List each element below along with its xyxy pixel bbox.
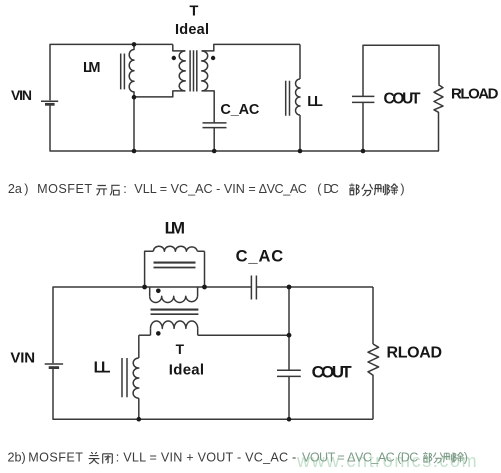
svg-text:): ) [464,451,468,465]
svg-text:COUT: COUT [312,362,353,381]
svg-text:Ideal: Ideal [169,361,204,378]
svg-text:(: ( [317,182,322,196]
svg-text::: : [116,451,120,465]
svg-text:2b): 2b) [8,451,26,465]
svg-text:LM: LM [83,60,101,76]
svg-text:VLL = VC_AC - VIN =: VLL = VC_AC - VIN = [134,182,255,196]
svg-text:ΔVC_AC: ΔVC_AC [259,182,307,196]
svg-text:2a: 2a [8,182,22,196]
svg-text:VOUT = ΔVC_AC (DC: VOUT = ΔVC_AC (DC [302,451,418,465]
svg-text:LL: LL [307,94,323,110]
svg-text:MOSFET: MOSFET [28,451,83,465]
svg-text:C_AC: C_AC [236,248,284,266]
svg-text:C_AC: C_AC [220,102,260,118]
svg-text::: : [123,182,127,196]
svg-text:LM: LM [165,219,185,238]
svg-text:): ) [400,182,404,196]
svg-text:LL: LL [94,360,111,377]
svg-text:MOSFET: MOSFET [37,182,92,196]
svg-text:VIN: VIN [11,87,32,103]
svg-text:DC: DC [323,182,338,196]
svg-text:Ideal: Ideal [175,22,209,38]
svg-text:): ) [24,182,28,196]
svg-text:COUT: COUT [384,91,422,108]
svg-text:VIN: VIN [10,349,35,366]
svg-text:T: T [176,342,185,357]
svg-text:T: T [190,3,199,19]
svg-text:RLOAD: RLOAD [451,85,499,102]
svg-text:VLL = VIN + VOUT - VC_AC -: VLL = VIN + VOUT - VC_AC - [123,451,296,465]
svg-text:RLOAD: RLOAD [387,345,443,362]
